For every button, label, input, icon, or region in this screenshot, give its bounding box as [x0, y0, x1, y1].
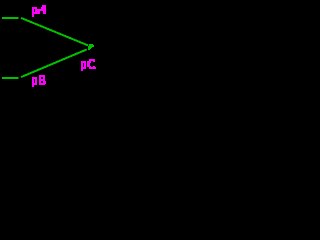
wire: top diagonal ray from A toward C	[21, 18, 88, 46]
wire: bottom diagonal ray from B toward C	[21, 49, 87, 77]
node pC label (pixel-art glyphs)	[81, 59, 96, 71]
wire: bottom horizontal segment of ray B	[2, 77, 19, 79]
arrowhead at vertex C	[88, 44, 94, 50]
node pB label (pixel-art glyphs)	[32, 75, 46, 87]
node pA label (pixel-art glyphs)	[32, 5, 46, 17]
background	[0, 0, 101, 91]
wire: top horizontal segment of ray A	[2, 17, 19, 19]
